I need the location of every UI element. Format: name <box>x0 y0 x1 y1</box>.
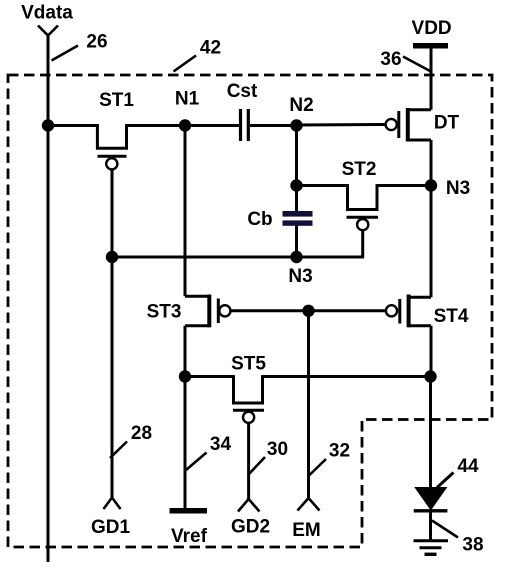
wire N3 to ST2 <box>377 184 431 187</box>
svg-text:EM: EM <box>292 520 321 541</box>
svg-text:ST1: ST1 <box>99 90 134 111</box>
wire Vdata vertical <box>47 36 50 563</box>
svg-text:ST3: ST3 <box>147 302 182 323</box>
Vdata terminal fork <box>38 26 58 36</box>
svg-text:32: 32 <box>329 441 350 462</box>
svg-text:38: 38 <box>462 535 483 556</box>
transistor DT drain arm <box>408 139 431 142</box>
transistor DT source arm <box>408 108 431 111</box>
transistor ST3 gate bubble <box>219 305 230 316</box>
svg-text:Vref: Vref <box>171 526 208 547</box>
wire N1 to Cst <box>185 124 239 127</box>
wire Cst to N2 <box>250 124 297 127</box>
leader line 26 <box>52 46 79 61</box>
transistor ST1 gate bubble <box>106 158 117 169</box>
node N3 bottom <box>290 251 302 263</box>
node Vdata/ST1 junction <box>42 119 54 131</box>
wire N2 down to Cb node <box>295 126 298 186</box>
wire junction to ST5 <box>185 375 234 378</box>
node EM gate junction <box>302 305 314 317</box>
svg-text:GD2: GD2 <box>231 517 270 538</box>
transistor ST4 gate plate <box>398 299 401 324</box>
transistor DT gate plate <box>397 111 400 138</box>
wire ST2 gate drop <box>361 229 364 258</box>
capacitor Cb plate top <box>283 211 313 217</box>
diode 44 cathode bar <box>414 509 448 512</box>
terminal GD2 fork <box>238 499 260 512</box>
wire ST2 to Cb top node <box>297 184 348 187</box>
transistor ST2 gate bubble <box>357 219 368 230</box>
transistor ST5 channel notch <box>234 375 263 403</box>
svg-text:26: 26 <box>86 32 107 53</box>
node ST4 drain junction <box>424 370 436 382</box>
transistor ST5 gate bar <box>233 409 264 412</box>
transistor ST4 top arm <box>409 296 431 299</box>
wire ST1 gate down to GD1 <box>111 169 114 498</box>
wire ST1 to N1 <box>127 124 186 127</box>
leader line 36 <box>403 57 430 72</box>
wire gate row (ST1 gate to ST2 gate) <box>112 256 363 259</box>
transistor ST1 channel notch <box>97 124 126 148</box>
ground 38 <box>414 539 449 542</box>
VDD power bar <box>413 43 448 49</box>
svg-text:ST4: ST4 <box>434 306 469 327</box>
transistor ST4 gate bubble <box>386 305 397 316</box>
transistor DT channel bar <box>406 108 410 142</box>
svg-text:Cb: Cb <box>247 209 272 230</box>
transistor DT gate bubble <box>386 119 397 130</box>
svg-text:VDD: VDD <box>412 18 452 39</box>
svg-text:42: 42 <box>200 38 221 59</box>
terminal GD1 fork <box>104 498 121 510</box>
leader line 44 <box>437 473 454 488</box>
wire diode to ground <box>429 511 432 541</box>
svg-text:Cst: Cst <box>227 81 258 102</box>
terminal EM fork <box>298 498 320 511</box>
wire ST3 gate to ST4 gate <box>231 309 386 312</box>
leader line 34 <box>186 453 207 471</box>
transistor ST4 bottom arm <box>409 324 431 327</box>
transistor ST3 channel bar <box>207 295 211 328</box>
leader line 30 <box>248 457 265 475</box>
node N1/ST5 junction <box>179 370 191 382</box>
wire N1 line down to Vref <box>184 326 187 509</box>
dashed pixel boundary box 42 <box>8 75 492 547</box>
capacitor Cb plate bottom <box>283 220 313 225</box>
transistor ST2 channel notch <box>348 184 378 209</box>
Vref bar <box>170 508 208 514</box>
svg-text:N2: N2 <box>289 95 313 116</box>
wire N1 down to ST3 <box>184 126 187 297</box>
leader line 32 <box>309 459 326 476</box>
transistor ST3 bottom arm <box>185 324 209 327</box>
wire DT drain to N3 <box>430 140 433 186</box>
leader line 38 <box>432 521 458 538</box>
svg-text:N1: N1 <box>175 89 200 110</box>
transistor ST1 gate bar <box>98 155 127 158</box>
transistor ST4 channel bar <box>407 295 411 328</box>
node N2 <box>290 119 302 131</box>
transistor ST3 top arm <box>185 295 209 298</box>
svg-text:N3: N3 <box>288 266 312 287</box>
diode 44 anode triangle <box>414 487 447 511</box>
svg-text:36: 36 <box>380 49 401 70</box>
svg-text:N3: N3 <box>446 178 470 199</box>
svg-text:ST5: ST5 <box>231 354 266 375</box>
svg-text:ST2: ST2 <box>342 159 377 180</box>
wire ST4 drain to OLED <box>429 377 432 489</box>
wire EM vertical <box>307 311 310 498</box>
transistor ST2 gate bar <box>347 216 379 219</box>
wire N3 down to ST4 <box>430 186 433 298</box>
transistor ST3 gate plate <box>217 299 220 324</box>
node N3 (right) <box>425 179 437 191</box>
wire Vdata to ST1 <box>48 124 99 127</box>
svg-text:44: 44 <box>457 456 479 477</box>
wire ST5 gate down to GD2 <box>247 422 250 499</box>
leader line 42 <box>174 56 197 72</box>
svg-text:30: 30 <box>267 439 288 460</box>
node N1 <box>179 119 191 131</box>
wire Cb bottom <box>295 225 298 257</box>
node ST1 gate junction <box>106 251 118 263</box>
wire N2 to DT gate <box>297 123 386 127</box>
leader line 28 <box>110 442 127 459</box>
wire ST4 drain down <box>430 326 433 377</box>
wire Cb top <box>295 186 298 213</box>
wire ST5 to ST4 drain <box>263 375 431 378</box>
wire VDD to DT <box>430 46 433 110</box>
svg-text:DT: DT <box>434 113 460 134</box>
svg-text:Vdata: Vdata <box>21 3 73 24</box>
svg-text:34: 34 <box>210 434 232 455</box>
svg-text:28: 28 <box>131 423 152 444</box>
capacitor Cst plates <box>239 109 242 141</box>
node Cb top junction <box>290 179 302 191</box>
svg-text:GD1: GD1 <box>91 517 131 538</box>
transistor ST5 gate bubble <box>243 412 254 423</box>
